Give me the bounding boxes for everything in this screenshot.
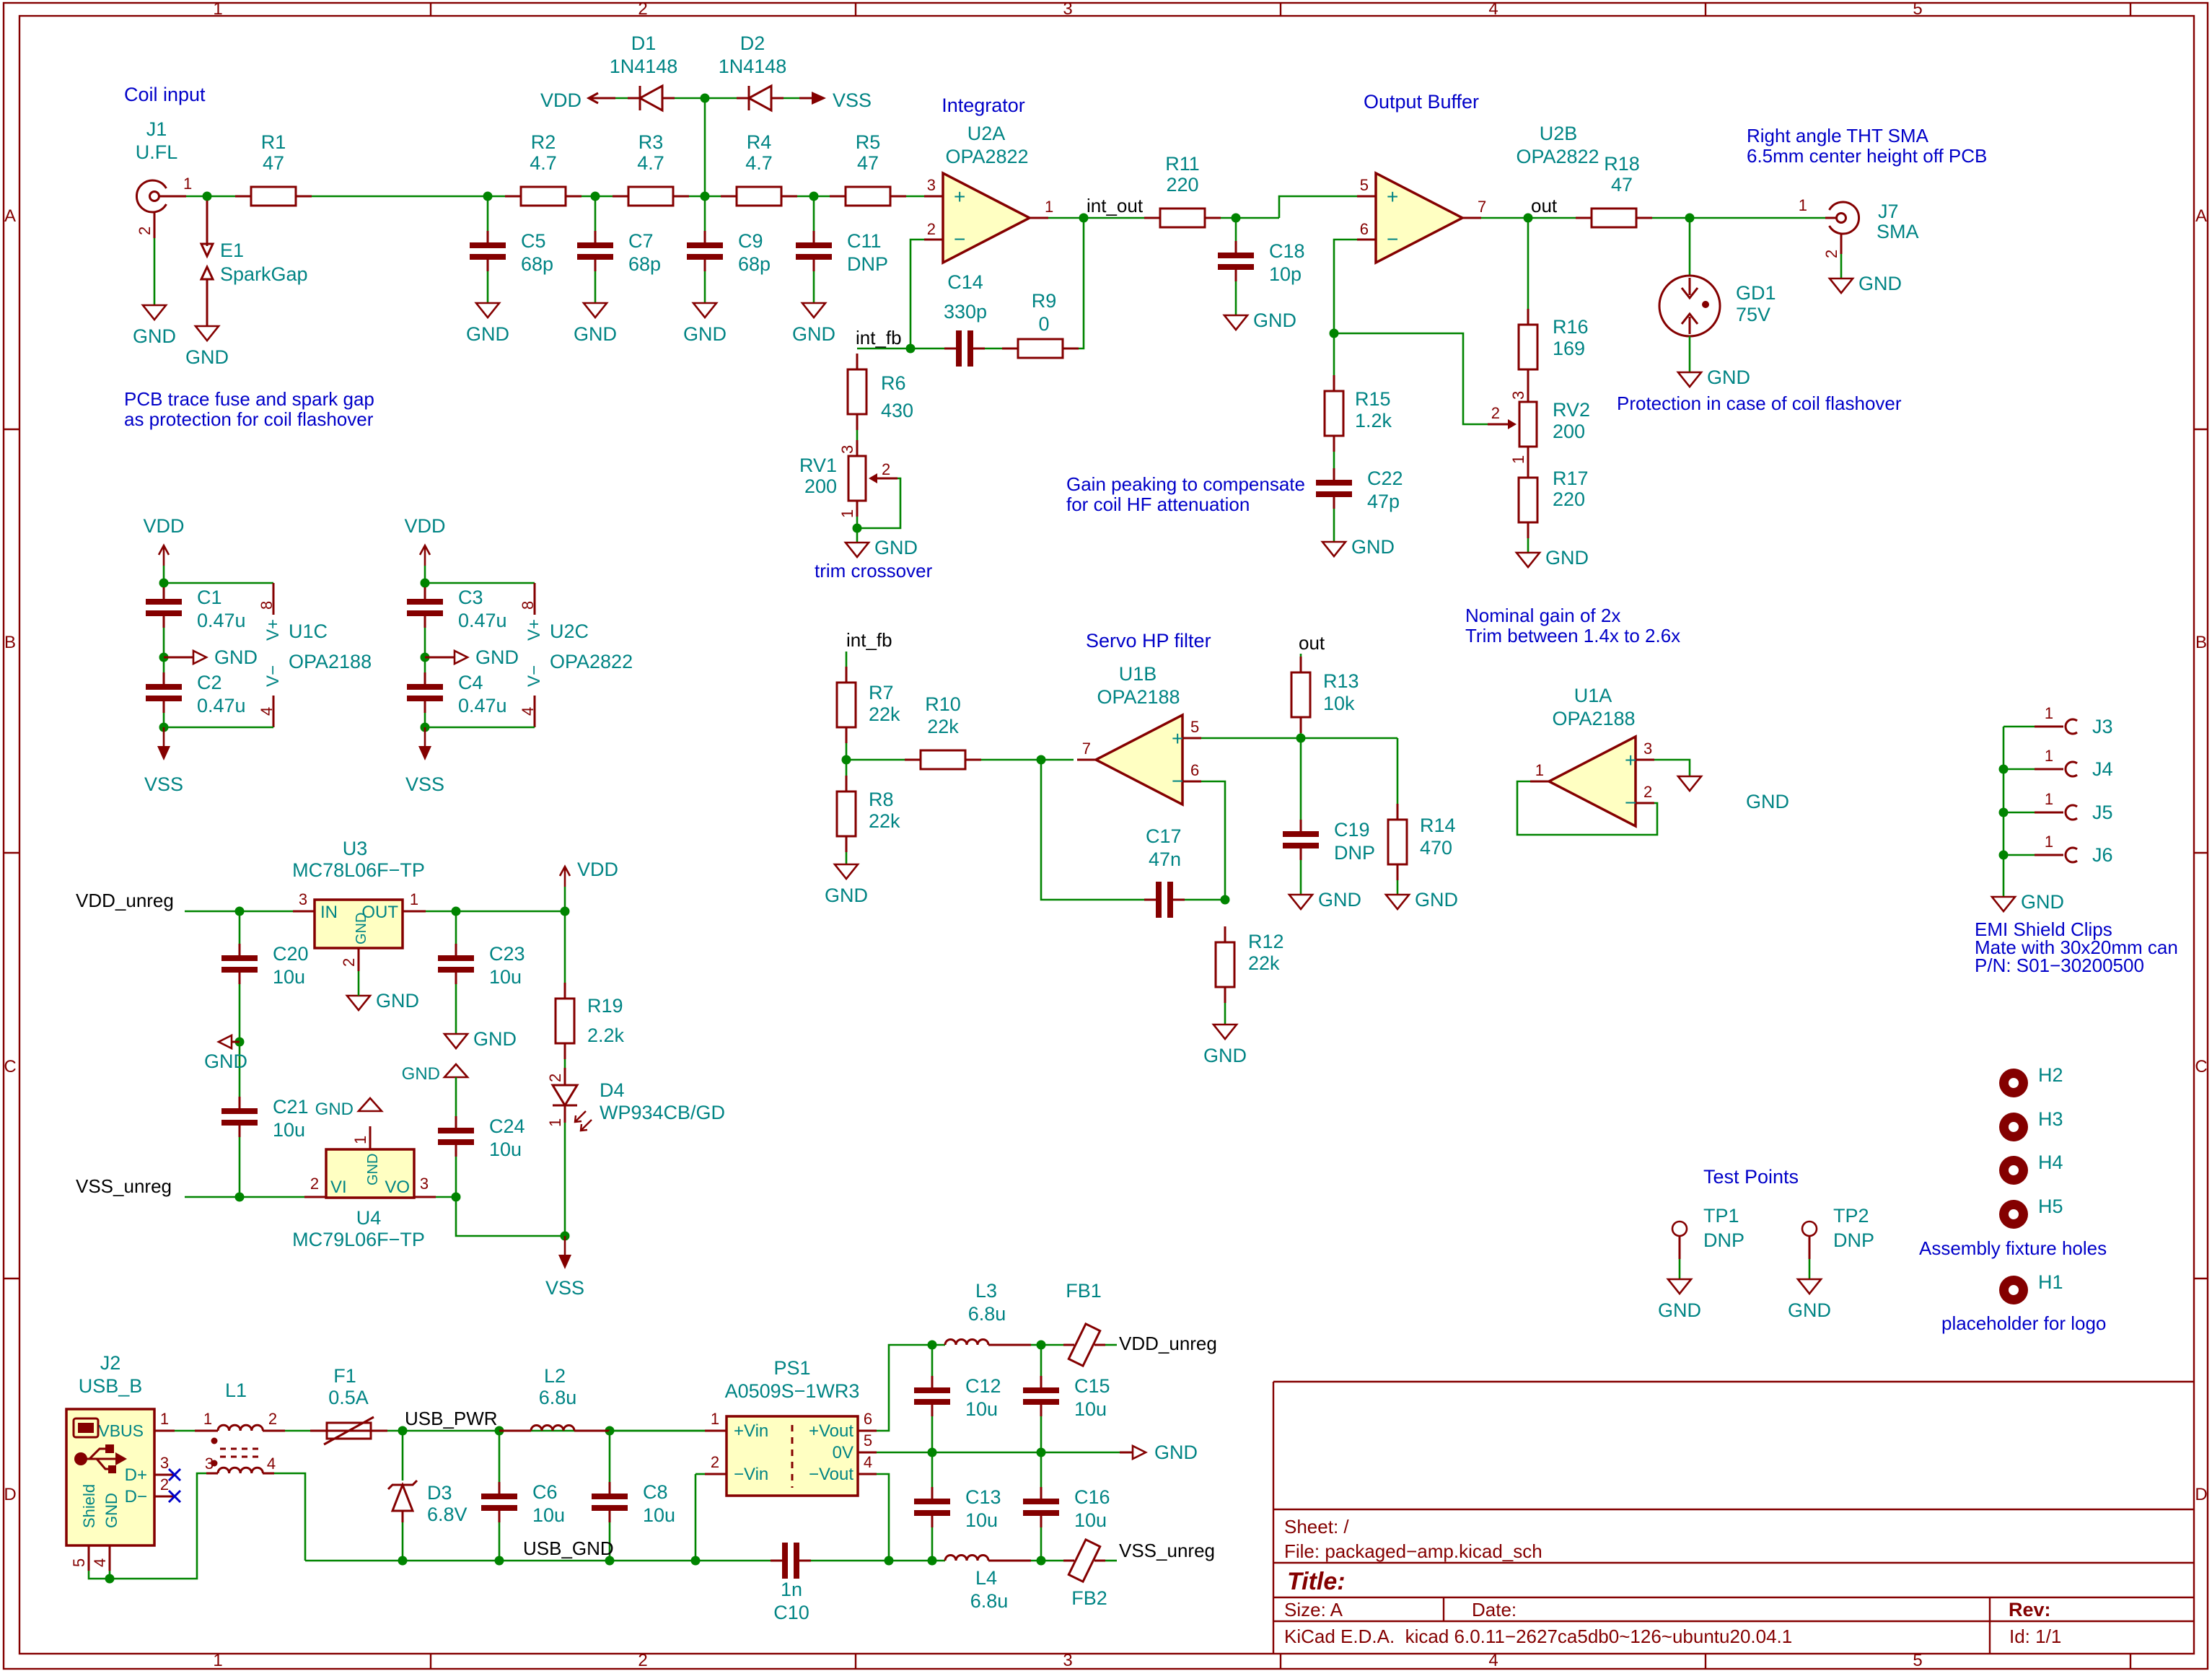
ground [683, 303, 727, 345]
ground [466, 303, 509, 345]
title block [1273, 1382, 2194, 1654]
svg-text:VDD: VDD [577, 859, 618, 880]
svg-text:3: 3 [1063, 1651, 1072, 1670]
svg-text:1N4148: 1N4148 [719, 56, 787, 77]
svg-text:U2B: U2B [1540, 123, 1578, 144]
svg-text:GND: GND [683, 323, 727, 345]
svg-text:0.47u: 0.47u [458, 610, 507, 631]
svg-text:1: 1 [160, 1410, 169, 1428]
svg-text:4.7: 4.7 [637, 152, 664, 174]
svg-text:6.8u: 6.8u [970, 1590, 1009, 1612]
wire C20 to C21 [239, 984, 241, 1097]
resistor R13 [1291, 657, 1359, 733]
svg-text:3: 3 [299, 890, 307, 908]
resistor R19 [556, 983, 625, 1059]
capacitor C9 [687, 230, 771, 275]
wire to C7 [594, 196, 597, 231]
svg-text:GND: GND [1658, 1299, 1701, 1321]
wire -Vout down [877, 1474, 889, 1561]
svg-text:Assembly fixture holes: Assembly fixture holes [1919, 1237, 2107, 1259]
svg-text:B: B [2195, 633, 2207, 652]
resistor R14 [1388, 804, 1456, 880]
wire J2 pin4 [109, 1571, 111, 1579]
node node C8 bottom [605, 1556, 615, 1566]
resistor R18 [1576, 153, 1652, 227]
svg-text:E1: E1 [220, 240, 244, 261]
wire FB1 out [1105, 1344, 1117, 1346]
wire diode clamp to node C9 [704, 98, 706, 196]
wire U1B +in net [1201, 737, 1397, 740]
svg-text:GND: GND [1318, 889, 1361, 911]
svg-text:−: − [1387, 228, 1398, 250]
ground above U4 (arrow up) [315, 1098, 382, 1119]
wire C18 to ground [1235, 281, 1237, 315]
inductor L2 6.8u [499, 1365, 610, 1431]
svg-text:+: + [954, 185, 965, 208]
power symbol VDD above R19 [560, 859, 618, 887]
node node C21 bottom [235, 1193, 245, 1202]
wire L1 to USB_GND [274, 1473, 305, 1561]
svg-text:Protection in case of coil fla: Protection in case of coil flashover [1617, 392, 1902, 414]
wire C9 to ground [704, 271, 706, 303]
svg-text:GD1: GD1 [1736, 282, 1776, 304]
wire TP2 to ground [1809, 1259, 1811, 1279]
svg-text:D1: D1 [631, 32, 657, 54]
ground [1386, 889, 1458, 911]
power symbol VSS below U1C [144, 727, 183, 795]
svg-text:5: 5 [864, 1431, 872, 1449]
wire D4 to VSS node [564, 1123, 566, 1236]
wire D1 to D2 [675, 97, 737, 100]
ground [1203, 1025, 1247, 1066]
wire RV1 pin1 to ground [856, 517, 859, 543]
svg-text:1: 1 [1045, 198, 1053, 216]
power symbol VDD above U1C [143, 515, 184, 566]
op-amp U2A OPA2822 [924, 123, 1053, 263]
wire R18 to J7 [1652, 217, 1825, 219]
svg-text:KiCad E.D.A. kicad 6.0.11−262: KiCad E.D.A. kicad 6.0.11−2627ca5db0~126… [1284, 1626, 1792, 1647]
svg-text:4: 4 [267, 1455, 276, 1473]
svg-text:7: 7 [1478, 198, 1486, 216]
svg-text:H5: H5 [2038, 1196, 2063, 1217]
resistor R4 [721, 131, 797, 206]
svg-text:470: 470 [1420, 837, 1452, 859]
wire R10 to U1B [981, 759, 1074, 761]
svg-text:VDD_unreg: VDD_unreg [76, 890, 174, 911]
resistor R2 [505, 131, 581, 206]
svg-text:GND: GND [825, 885, 868, 906]
wire C15 to C16 [1040, 1416, 1043, 1487]
svg-text:GND: GND [365, 1154, 381, 1185]
wire R7 to R8 [846, 743, 848, 776]
svg-text:U1C: U1C [289, 620, 328, 642]
regulator U4 MC79L06F-TP [292, 1126, 436, 1250]
node node C20 top [235, 907, 245, 916]
svg-text:V+: V+ [525, 619, 544, 641]
op-amp U1B OPA2188 (mirrored) [1077, 663, 1201, 804]
power symbol VSS arrow right [799, 89, 872, 111]
svg-text:2: 2 [136, 227, 154, 235]
svg-text:GND: GND [473, 1028, 517, 1050]
svg-text:Integrator: Integrator [942, 95, 1025, 116]
svg-text:22k: 22k [1248, 952, 1280, 974]
svg-text:GND: GND [1545, 547, 1589, 569]
svg-text:3: 3 [420, 1175, 429, 1193]
fuse F1 0.5A [310, 1365, 387, 1444]
svg-text:6.8V: 6.8V [427, 1504, 468, 1525]
resistor R5 [830, 131, 906, 206]
svg-text:B: B [4, 633, 16, 652]
node node C16 bottom [1037, 1556, 1046, 1566]
wire R17 to ground [1527, 538, 1529, 553]
wire int_fb to R6 [857, 348, 910, 350]
wire [932, 1344, 945, 1346]
wire C13 down [931, 1527, 934, 1561]
wire C11 to ground [813, 271, 815, 303]
resistor R11 [1144, 153, 1221, 227]
svg-text:0.47u: 0.47u [197, 695, 246, 716]
note PCB trace fuse [124, 388, 374, 430]
capacitor C11 [796, 230, 888, 275]
svg-text:6.5mm center height off PCB: 6.5mm center height off PCB [1747, 145, 1987, 167]
svg-text:D2: D2 [740, 32, 765, 54]
svg-text:F1: F1 [333, 1365, 356, 1387]
wire out to GD1 [1689, 218, 1691, 276]
wire [163, 713, 165, 727]
diode D2 1N4148 [719, 32, 787, 110]
svg-text:1: 1 [1799, 196, 1807, 214]
svg-text:GND: GND [315, 1100, 354, 1119]
svg-text:1: 1 [838, 509, 856, 518]
wire -Vin down [695, 1474, 697, 1561]
wire C21 to VSS_unreg [239, 1137, 241, 1197]
svg-text:−: − [954, 228, 965, 250]
svg-text:DNP: DNP [1833, 1229, 1874, 1251]
ground [1830, 273, 1902, 294]
svg-text:8: 8 [519, 601, 537, 610]
svg-text:J1: J1 [146, 118, 167, 140]
svg-text:C10: C10 [773, 1602, 809, 1623]
wire C23 to ground [455, 984, 457, 1034]
svg-text:MC78L06F−TP: MC78L06F−TP [292, 859, 425, 881]
wire to C20 [239, 911, 241, 944]
wire to R14 [1397, 738, 1399, 804]
power symbol VDD above U2C [404, 515, 445, 566]
wire R5 to U2A [906, 196, 924, 198]
ground [133, 305, 176, 347]
svg-text:R2: R2 [531, 131, 556, 153]
resistor R15 [1325, 375, 1392, 452]
wire USB_PWR rail [387, 1430, 705, 1432]
svg-text:R4: R4 [747, 131, 772, 153]
svg-text:0.47u: 0.47u [458, 695, 507, 716]
note Right angle THT SMA [1747, 125, 1987, 167]
power symbol VSS below regulators [545, 1236, 584, 1299]
svg-text:2: 2 [1822, 250, 1840, 258]
svg-text:H4: H4 [2038, 1152, 2063, 1173]
svg-text:U2A: U2A [967, 123, 1006, 144]
node node C15 top [1037, 1341, 1046, 1350]
node node C11 top [809, 192, 819, 201]
capacitor C17 47n [1144, 825, 1185, 918]
svg-text:3: 3 [1643, 740, 1652, 758]
svg-text:10u: 10u [643, 1504, 675, 1526]
wire [163, 628, 165, 672]
wire fb to RV2 wiper [1334, 333, 1488, 424]
svg-text:int_fb: int_fb [846, 629, 892, 651]
wire VBUS to L1 [175, 1430, 195, 1432]
wire to C9 [704, 196, 706, 231]
wire TP1 to ground [1679, 1259, 1681, 1279]
svg-text:2: 2 [160, 1475, 169, 1494]
svg-text:Right angle THT SMA: Right angle THT SMA [1747, 125, 1929, 146]
svg-text:R6: R6 [881, 372, 906, 394]
svg-text:C9: C9 [738, 230, 763, 252]
wire to C6 [499, 1431, 501, 1482]
svg-text:V−: V− [263, 665, 283, 687]
resistor R9 0 [1002, 290, 1079, 358]
svg-text:C6: C6 [532, 1481, 558, 1503]
svg-text:placeholder for logo: placeholder for logo [1941, 1312, 2106, 1334]
svg-text:2: 2 [638, 1651, 647, 1670]
svg-text:GND: GND [1858, 273, 1902, 294]
svg-text:C18: C18 [1269, 240, 1305, 262]
svg-text:GND: GND [1707, 367, 1750, 388]
svg-text:R15: R15 [1355, 388, 1391, 410]
wire R14 to ground [1397, 880, 1399, 895]
svg-text:68p: 68p [521, 253, 553, 275]
svg-text:1: 1 [213, 1651, 222, 1670]
svg-text:L3: L3 [975, 1280, 997, 1302]
svg-text:6: 6 [1360, 220, 1369, 238]
node node servo divider [842, 755, 851, 765]
svg-text:C8: C8 [643, 1481, 668, 1503]
svg-text:5: 5 [1360, 176, 1369, 194]
wire VDD down [424, 566, 426, 583]
wire J1 to R1 [186, 196, 235, 198]
svg-text:USB_GND: USB_GND [523, 1538, 614, 1559]
ground at U1A +in [1678, 776, 1789, 812]
wire C10 to C13 [811, 1560, 932, 1562]
svg-text:PS1: PS1 [773, 1357, 810, 1379]
wire [1031, 1344, 1041, 1346]
svg-text:FB1: FB1 [1066, 1280, 1102, 1302]
node node C23 top [452, 907, 461, 916]
wire int_fb to C14 [910, 348, 944, 350]
wire to C5 [487, 196, 489, 231]
svg-text:2: 2 [546, 1074, 564, 1082]
node node U1B in [1037, 755, 1046, 765]
ferrite bead FB2 [1063, 1540, 1107, 1609]
svg-text:VBUS: VBUS [98, 1421, 144, 1440]
connector J6 EMI shield clip [2003, 833, 2113, 866]
capacitor C3 [407, 587, 507, 631]
svg-text:0: 0 [1038, 313, 1049, 335]
connector J5 EMI shield clip [2003, 790, 2113, 823]
svg-text:C17: C17 [1146, 825, 1182, 847]
capacitor C5 [470, 230, 553, 275]
wire D3 to USB_GND [402, 1522, 404, 1561]
svg-text:1: 1 [2045, 790, 2053, 808]
svg-text:200: 200 [804, 475, 837, 497]
capacitor C10 1n [771, 1543, 811, 1623]
svg-text:2.2k: 2.2k [587, 1025, 625, 1046]
inductor L3 6.8u [945, 1280, 1031, 1345]
node node int_out [1079, 214, 1089, 223]
node node C13 bottom [928, 1556, 937, 1566]
svg-text:D: D [4, 1485, 16, 1504]
resistor R7 [837, 667, 900, 743]
capacitor C16 [1023, 1486, 1110, 1531]
common-mode choke L1 [195, 1380, 285, 1473]
svg-text:OPA2188: OPA2188 [1097, 686, 1180, 708]
node node C8 top [605, 1426, 615, 1436]
svg-text:2: 2 [340, 958, 358, 967]
resistor R16 [1519, 309, 1589, 385]
svg-text:C21: C21 [273, 1096, 309, 1118]
svg-text:R11: R11 [1165, 153, 1200, 175]
node node fb divider [1330, 329, 1339, 338]
svg-text:H2: H2 [2038, 1064, 2063, 1086]
svg-text:L2: L2 [544, 1365, 566, 1387]
svg-text:GND: GND [1788, 1299, 1831, 1321]
svg-text:10u: 10u [1074, 1509, 1107, 1531]
note EMI Shield Clips [1975, 918, 2178, 976]
svg-text:VDD: VDD [540, 89, 581, 111]
node node J6 [1999, 851, 2009, 860]
wire to C15 [1040, 1345, 1043, 1376]
svg-text:Nominal gain of 2x: Nominal gain of 2x [1465, 605, 1620, 626]
ground arrow right 0V [1120, 1442, 1198, 1463]
node node R19 top [561, 907, 570, 916]
svg-text:DNP: DNP [1334, 842, 1375, 864]
svg-text:C24: C24 [489, 1115, 525, 1137]
ground [1788, 1279, 1831, 1321]
wire R19 to D4 [564, 1059, 566, 1068]
op-amp power unit U2C OPA2822 [519, 583, 633, 727]
svg-text:GND: GND [475, 646, 519, 668]
note Nominal gain [1465, 605, 1680, 646]
svg-text:V+: V+ [263, 619, 283, 641]
svg-text:4.7: 4.7 [745, 152, 773, 174]
capacitor C7 [577, 230, 661, 275]
svg-text:U2C: U2C [550, 620, 589, 642]
ground [185, 326, 229, 368]
wire shield/gnd to L1 [89, 1473, 206, 1579]
wire to R15 [1333, 333, 1335, 375]
svg-text:220: 220 [1166, 174, 1198, 196]
wire [1031, 1560, 1063, 1562]
border row letters [4, 206, 2207, 1504]
svg-text:3: 3 [1063, 0, 1072, 19]
wire C6 down [499, 1522, 501, 1561]
wire -Vin [695, 1473, 705, 1475]
svg-text:Gain peaking to compensate: Gain peaking to compensate [1066, 473, 1305, 495]
svg-text:OPA2822: OPA2822 [945, 146, 1028, 167]
node node U1C V- [159, 723, 169, 732]
node node D3 top [398, 1426, 408, 1436]
ground [825, 864, 868, 906]
svg-text:for coil HF attenuation: for coil HF attenuation [1066, 494, 1250, 515]
wire C12 to C13 [931, 1416, 934, 1487]
ground tap U1C [164, 646, 258, 668]
wire to C18 [1235, 218, 1237, 241]
wire VDD_unreg to U3 [185, 911, 293, 913]
wire to D3 [402, 1431, 404, 1481]
svg-text:10u: 10u [532, 1504, 565, 1526]
svg-text:C22: C22 [1367, 468, 1403, 489]
mounting hole H5 [1999, 1196, 2063, 1229]
svg-text:47: 47 [857, 152, 879, 174]
regulator U3 MC78L06F-TP [292, 838, 426, 971]
svg-text:2: 2 [882, 460, 890, 478]
wire C5 to ground [487, 271, 489, 303]
svg-text:220: 220 [1553, 488, 1585, 510]
dc-dc module PS1 A0509S-1WR3 [705, 1357, 877, 1496]
wire C19 to ground [1300, 860, 1302, 895]
svg-text:+: + [1625, 749, 1636, 771]
capacitor C18 [1218, 240, 1305, 285]
svg-text:Date:: Date: [1472, 1599, 1517, 1620]
svg-text:3: 3 [927, 176, 936, 194]
svg-text:GND: GND [1351, 536, 1395, 558]
svg-text:RV1: RV1 [799, 455, 837, 476]
wire [424, 713, 426, 727]
svg-text:GND: GND [133, 325, 176, 347]
svg-text:C1: C1 [197, 587, 222, 608]
svg-text:D+: D+ [125, 1465, 147, 1485]
svg-text:430: 430 [881, 400, 913, 421]
wire VDD down [163, 566, 165, 583]
svg-text:47: 47 [263, 152, 284, 174]
svg-text:C2: C2 [197, 672, 222, 693]
ground [1322, 536, 1395, 558]
capacitor C12 [914, 1375, 1001, 1420]
svg-text:+Vin: +Vin [734, 1421, 768, 1441]
svg-text:4: 4 [1488, 1651, 1498, 1670]
node node C6 top [495, 1426, 504, 1436]
wire [163, 583, 165, 587]
mounting hole H2 [1999, 1064, 2063, 1097]
wire to U2B +in [1279, 196, 1357, 218]
power symbol VSS below U2C [405, 727, 444, 795]
svg-text:6: 6 [864, 1410, 872, 1428]
gas discharge tube GD1 75V [1659, 276, 1776, 336]
ground [1517, 547, 1589, 569]
power symbol VDD arrow left [540, 89, 615, 111]
connector J2 USB_B [66, 1352, 175, 1571]
svg-text:R1: R1 [261, 131, 286, 153]
wire EMI clips gnd bus [2003, 727, 2005, 897]
capacitor C24 [438, 1115, 525, 1160]
svg-text:10k: 10k [1323, 693, 1355, 714]
test point TP2 DNP [1802, 1205, 1874, 1259]
svg-text:C16: C16 [1074, 1486, 1110, 1508]
svg-text:R13: R13 [1323, 670, 1359, 692]
capacitor C21 [221, 1096, 309, 1141]
capacitor C1 [146, 587, 246, 631]
svg-text:3: 3 [1509, 391, 1527, 400]
svg-text:OPA2822: OPA2822 [550, 651, 633, 672]
node node U2C V+ [421, 579, 430, 588]
svg-text:1: 1 [203, 1410, 212, 1428]
resistor R1 [235, 131, 312, 206]
wire gnd to C24 [455, 1077, 457, 1116]
svg-text:R5: R5 [856, 131, 881, 153]
svg-text:H1: H1 [2038, 1271, 2063, 1293]
svg-text:1: 1 [1509, 455, 1527, 464]
wire FB2 out [1105, 1560, 1117, 1562]
